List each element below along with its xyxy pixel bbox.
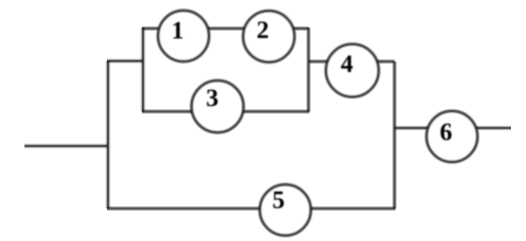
label 1: [171, 17, 184, 44]
svg-text:5: 5: [272, 187, 285, 214]
wire to component 4: [309, 59, 395, 64]
component 3: [192, 81, 244, 133]
wire bottom branch: [107, 206, 396, 211]
label 4: [341, 51, 354, 78]
wire top branch: [142, 26, 309, 31]
wire to component 6 and output: [395, 126, 512, 131]
svg-text:2: 2: [256, 17, 269, 44]
component 2: [243, 11, 294, 62]
wire inner-right vertical: [306, 28, 311, 112]
svg-text:6: 6: [440, 119, 453, 146]
svg-text:4: 4: [341, 51, 354, 78]
component 1: [158, 11, 209, 62]
label 3: [206, 85, 219, 112]
wire right bus: [392, 62, 397, 209]
component 6: [427, 111, 478, 162]
wire bus-top connector: [107, 59, 143, 64]
component 4: [326, 44, 379, 97]
wire middle branch: [142, 109, 310, 114]
label 6: [440, 119, 453, 146]
svg-text:3: 3: [206, 85, 219, 112]
label 5: [272, 187, 285, 214]
wire left bus: [106, 61, 111, 209]
label 2: [256, 17, 269, 44]
component 5: [260, 185, 311, 236]
wire input: [25, 144, 109, 149]
wire inner-left vertical: [141, 28, 146, 112]
svg-text:1: 1: [171, 17, 184, 44]
